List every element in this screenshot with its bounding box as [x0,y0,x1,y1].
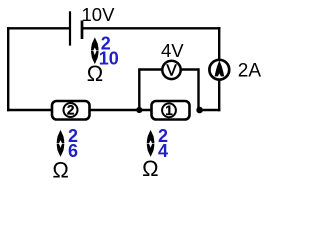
resistor R2 box [52,101,90,120]
wire: voltmeter left riser [138,68,140,110]
wire: bottom right horizontal from node B to ammeter branch [200,109,221,111]
svg-text:10V: 10V [82,4,116,25]
wire: voltmeter horizontal branch [139,68,198,70]
node B junction dot [196,107,203,114]
voltmeter U-V [162,61,180,79]
resistor R1 annotation up arrow [147,130,155,143]
wire: between resistor R2 and resistor R1 [89,109,152,111]
battery annotation down arrow [91,51,99,64]
resistor R2 annotation up arrow [57,130,65,143]
wire: top right from battery to right corner [82,27,220,29]
svg-text:2A: 2A [238,60,262,81]
svg-text:2: 2 [67,103,75,118]
svg-text:V: V [166,62,177,79]
battery short plate [81,21,84,40]
ammeter U-A [209,60,229,80]
svg-text:4: 4 [158,141,168,161]
svg-text:Ω: Ω [142,156,158,180]
wire: right vertical through ammeter [218,27,220,111]
resistor R1 box [152,101,190,120]
node A junction dot [136,107,142,113]
resistor R1 annotation down arrow [147,144,155,157]
svg-text:Ω: Ω [87,61,103,86]
svg-text:Ω: Ω [52,157,68,180]
resistor R1 circled 1 [162,103,176,117]
svg-text:1: 1 [165,103,173,118]
resistor R2 circled 2 [64,103,78,117]
wire: bottom left horizontal to resistor R2 [7,109,52,111]
svg-text:6: 6 [68,141,78,161]
wire: voltmeter right riser [197,68,199,110]
wire: left vertical [7,27,9,111]
battery long plate [69,11,71,45]
wire: top left from battery to left corner [7,27,70,29]
resistor R2 annotation down arrow [57,144,65,157]
battery annotation up arrow [91,37,99,50]
svg-text:4V: 4V [161,40,184,61]
